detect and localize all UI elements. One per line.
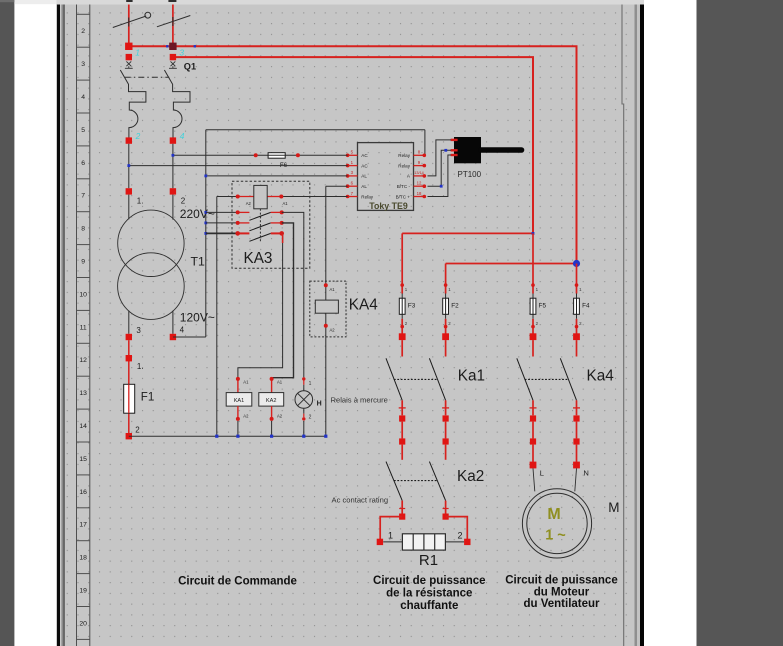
svg-text:9: 9 <box>81 259 85 266</box>
wire to motor L <box>532 445 534 462</box>
svg-text:N: N <box>583 468 588 477</box>
svg-text:12: 12 <box>417 181 422 186</box>
contact upper (F2 col) <box>429 340 449 445</box>
relay KA4 coil <box>315 283 338 332</box>
motor M <box>522 468 591 558</box>
svg-text:A1: A1 <box>243 379 249 384</box>
svg-text:F5: F5 <box>539 303 547 310</box>
node motor N <box>573 462 580 469</box>
svg-text:M: M <box>608 500 619 515</box>
svg-text:13/14: 13/14 <box>414 171 424 175</box>
svg-text:2: 2 <box>309 415 312 421</box>
wire KA3 row2 to KA2 coil <box>272 223 294 379</box>
svg-text:AC: AC <box>361 163 368 168</box>
junction feeder F3/F5 <box>532 232 535 235</box>
svg-text:2: 2 <box>135 131 141 141</box>
svg-text:8: 8 <box>81 226 85 233</box>
svg-text:KA4: KA4 <box>349 297 378 314</box>
junctions net A to KA3 contacts <box>204 211 207 214</box>
svg-text:2: 2 <box>458 530 463 540</box>
svg-text:M: M <box>547 506 560 523</box>
svg-text:de la résistance: de la résistance <box>386 588 472 600</box>
svg-text:7: 7 <box>81 193 85 200</box>
node R1 pin2 <box>464 539 470 545</box>
link Ka1 <box>394 378 438 380</box>
top light band <box>57 0 644 5</box>
svg-text:220V~: 220V~ <box>180 207 215 221</box>
wire Ka2L to R1 <box>380 517 402 542</box>
svg-text:du Ventilateur: du Ventilateur <box>523 598 600 610</box>
svg-text:A2: A2 <box>243 413 249 418</box>
wire Q1 to T1 left <box>128 144 130 188</box>
svg-text:1: 1 <box>388 530 393 540</box>
svg-text:Relais à mercure: Relais à mercure <box>331 396 388 405</box>
svg-text:1: 1 <box>135 48 140 58</box>
svg-text:B/TC +: B/TC + <box>396 194 411 199</box>
svg-text:11: 11 <box>80 324 87 331</box>
svg-text:1.: 1. <box>137 362 144 371</box>
svg-text:1.: 1. <box>137 197 144 206</box>
svg-text:chauffante: chauffante <box>400 600 458 612</box>
junction net A <box>204 175 207 178</box>
svg-text:Relay: Relay <box>398 153 410 158</box>
Toky pin 18 (B/TC +) <box>396 191 427 200</box>
PT100 probe body <box>451 137 522 163</box>
svg-text:Circuit de puissance: Circuit de puissance <box>505 575 617 587</box>
Toky pin 5 (AC) <box>346 150 369 159</box>
svg-text:AL: AL <box>361 174 367 179</box>
wire PT100 lead 1 <box>428 140 451 176</box>
Toky pin 12 (B/TC -) <box>397 181 426 190</box>
Toky pin 3 (AL) <box>346 170 368 179</box>
svg-text:AC: AC <box>361 153 368 158</box>
fuse F5 column <box>530 233 547 340</box>
svg-text:3: 3 <box>179 48 184 58</box>
svg-text:Ka2: Ka2 <box>457 468 484 485</box>
contact Ka2 (left) <box>386 445 405 520</box>
svg-text:Relay: Relay <box>398 163 410 168</box>
node Q1 pin1 <box>126 54 132 60</box>
Toky pin 1 (AC) <box>346 160 369 169</box>
caption moteur <box>505 575 617 611</box>
svg-text:KA1: KA1 <box>234 398 245 404</box>
KA3 contact row 1 <box>206 210 284 220</box>
svg-text:18: 18 <box>79 555 87 562</box>
svg-text:3: 3 <box>136 326 141 335</box>
svg-text:3: 3 <box>81 61 85 68</box>
svg-text:16: 16 <box>79 489 87 496</box>
Toky pin 9 (Relay) <box>398 160 426 169</box>
svg-text:F1: F1 <box>141 392 154 404</box>
node Q1 pin4 <box>170 137 176 143</box>
svg-text:2: 2 <box>81 28 85 35</box>
KA3 contact row 2 <box>206 221 284 231</box>
svg-text:20: 20 <box>79 620 87 627</box>
svg-text:A1: A1 <box>282 201 288 206</box>
wire T1 pin4 to net A <box>173 336 206 338</box>
disconnect switch S2 <box>157 16 190 27</box>
resistor R1 <box>383 534 464 550</box>
svg-text:Q1: Q1 <box>184 61 196 71</box>
svg-text:T1: T1 <box>191 255 206 269</box>
wire AC pin1 row <box>129 165 348 167</box>
wire common rail <box>129 435 326 437</box>
fuse F1 <box>124 384 135 413</box>
node T1 pin3 <box>126 334 132 340</box>
breaker Q1 contact marks <box>125 61 133 68</box>
wire KA3 row1 to lamp H <box>282 212 304 377</box>
svg-text:17: 17 <box>79 522 87 529</box>
fuse F2 column <box>442 264 459 341</box>
node L2 tap junction <box>169 43 176 50</box>
svg-text:19: 19 <box>79 588 87 595</box>
relay coil KA1 <box>226 377 252 436</box>
wire AC pin5 row (with F6) <box>173 154 348 156</box>
contact upper (F4 col) <box>560 340 580 445</box>
svg-text:A2: A2 <box>246 201 252 206</box>
wire top control run <box>206 129 425 131</box>
KA3 contact row 3 <box>206 231 284 241</box>
svg-text:120V~: 120V~ <box>180 311 215 325</box>
lamp H <box>295 377 322 436</box>
svg-text:A2: A2 <box>330 328 336 333</box>
junction feeder F2/F4 <box>573 260 580 267</box>
svg-text:13: 13 <box>79 390 87 397</box>
wire PT100 lead 2 <box>428 150 451 186</box>
svg-text:2: 2 <box>181 197 186 206</box>
svg-text:Ka4: Ka4 <box>587 368 615 385</box>
caption resistance <box>373 575 485 612</box>
svg-text:B/TC -: B/TC - <box>397 184 411 189</box>
wire KA3 A2 vertical to rail <box>216 197 218 437</box>
node Q1 pin2 <box>126 137 132 143</box>
Toky pin 6 (AL) <box>346 181 368 190</box>
wire F1 branch <box>128 340 130 433</box>
wire net A vertical <box>205 130 207 337</box>
wire to motor N <box>576 445 578 462</box>
relay KA3 coil <box>236 185 289 208</box>
wire Ka2R to R1 <box>446 517 468 542</box>
svg-text:A1: A1 <box>330 287 336 292</box>
KA3 mechanical link <box>259 209 261 242</box>
fuse F6 <box>254 153 300 169</box>
svg-text:10: 10 <box>79 291 87 298</box>
breaker Q1 pole 2 <box>164 70 190 138</box>
svg-text:4: 4 <box>180 325 185 334</box>
wire KA4 coil net vertical <box>325 186 327 436</box>
svg-text:1 ~: 1 ~ <box>545 528 566 544</box>
svg-text:KA2: KA2 <box>266 398 277 404</box>
svg-text:du Moteur: du Moteur <box>534 587 590 599</box>
wire Q1 to T1 right <box>172 144 174 188</box>
svg-text:18: 18 <box>417 191 422 196</box>
relay KA4 boundary box <box>310 281 346 337</box>
svg-text:Toky TE9: Toky TE9 <box>369 201 408 211</box>
contact upper (F5 col) <box>517 340 537 445</box>
Toky TE9 controller U1 <box>358 143 414 211</box>
node T1 pin1 <box>126 188 132 194</box>
svg-text:5: 5 <box>81 127 85 134</box>
breaker Q1 trip link <box>125 76 169 78</box>
junction on L1 column <box>127 164 130 167</box>
wire AL pin6 row <box>326 185 348 187</box>
contact upper (F3 col) <box>386 340 406 445</box>
node R1 pin1 <box>377 539 383 545</box>
svg-text:6: 6 <box>81 160 85 167</box>
Toky pin 13/14 (A) <box>407 171 426 179</box>
wire AL pin3 row <box>206 175 348 177</box>
svg-text:14: 14 <box>79 423 87 430</box>
svg-text:Circuit de puissance: Circuit de puissance <box>373 575 485 587</box>
Toky pin 8 (Relay) <box>398 150 426 159</box>
svg-text:2: 2 <box>135 426 140 435</box>
svg-text:F4: F4 <box>582 303 590 310</box>
link Ka2 <box>394 480 438 482</box>
svg-text:PT100: PT100 <box>458 170 482 179</box>
wire feeder to F2 <box>446 263 577 265</box>
transformer T1 <box>118 195 185 334</box>
svg-text:4: 4 <box>180 131 185 141</box>
link Ka4 <box>525 378 569 380</box>
svg-text:F2: F2 <box>451 303 459 310</box>
breaker Q1 pole 1 <box>120 70 146 138</box>
svg-text:R1: R1 <box>419 552 438 569</box>
disconnect switch S1 <box>113 12 151 27</box>
ruler column <box>77 5 90 646</box>
wire red bus 1 (to F2/F4 feeders) <box>129 46 577 263</box>
svg-text:Ka1: Ka1 <box>458 368 485 385</box>
page inner frame right <box>622 5 624 646</box>
svg-text:F3: F3 <box>408 303 416 310</box>
relay coil KA2 <box>259 377 284 436</box>
svg-text:A2: A2 <box>277 413 283 418</box>
wire L1 supply <box>128 5 130 47</box>
svg-text:Relay: Relay <box>361 194 373 199</box>
node F1 top <box>126 355 132 361</box>
wire KA3 A2 run <box>217 196 254 198</box>
wire KA3 row3 to KA1 coil <box>238 233 283 378</box>
wire PT100 lead 3 <box>428 155 451 197</box>
rail junction nodes <box>215 435 218 438</box>
svg-text:A1: A1 <box>277 379 283 384</box>
svg-text:Circuit de Commande: Circuit de Commande <box>178 575 297 587</box>
node Q1 pin3 <box>170 54 176 60</box>
wire red bus 2 (to F3/F5 feeders) <box>173 57 533 233</box>
node F1 bottom / rail end <box>126 433 132 439</box>
node motor L <box>530 462 537 469</box>
grid dots <box>65 5 635 646</box>
node T1 pin4 <box>170 334 176 340</box>
fuse F3 column <box>399 233 416 340</box>
svg-text:H: H <box>317 401 322 408</box>
svg-text:15: 15 <box>79 456 87 463</box>
relay KA3 boundary box <box>232 181 310 268</box>
svg-text:1: 1 <box>309 381 312 387</box>
svg-text:L: L <box>540 468 544 477</box>
wire L2 supply <box>172 5 174 47</box>
Toky pin 7 (Relay) <box>346 191 374 200</box>
svg-text:KA3: KA3 <box>244 250 273 267</box>
svg-text:AL: AL <box>361 184 367 189</box>
cut-off symbol marks at top <box>126 0 132 2</box>
fuse F4 column <box>573 264 590 341</box>
contact Ka2 (right) <box>429 445 448 520</box>
wire feeder to F3 <box>402 232 533 234</box>
junction on L2 column <box>172 154 175 157</box>
wire Relay pin7 to KA3 A1 <box>267 196 347 198</box>
node T1 pin2 <box>170 188 176 194</box>
svg-text:4: 4 <box>81 94 85 101</box>
node L1 terminal <box>125 43 132 50</box>
svg-text:Ac contact rating: Ac contact rating <box>332 495 389 504</box>
svg-text:12: 12 <box>79 357 87 364</box>
wire down to Toky pin8 <box>424 130 426 156</box>
